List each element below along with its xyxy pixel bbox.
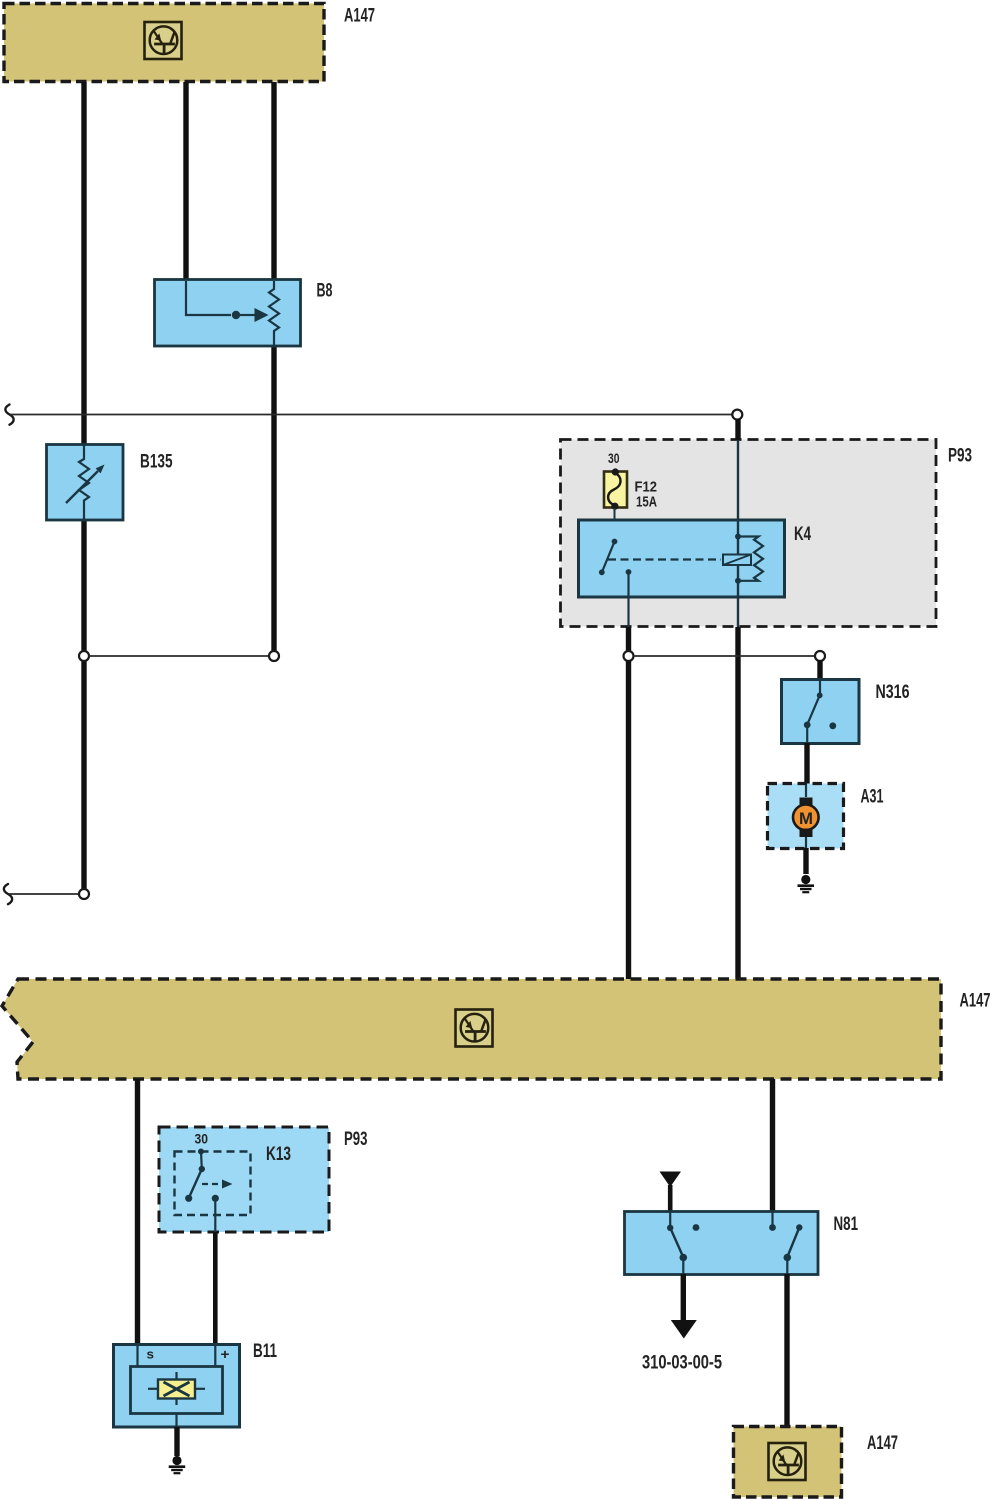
output arrow 310-03-00-5 [671, 1274, 697, 1339]
svg-text:P93: P93 [344, 1129, 368, 1150]
svg-text:K13: K13 [266, 1144, 291, 1165]
resistor B135 [47, 445, 124, 521]
svg-text:A31: A31 [861, 787, 884, 808]
pump A31 [768, 784, 844, 849]
wire [626, 627, 631, 652]
node [624, 651, 634, 661]
wire B11 to ground [174, 1427, 179, 1456]
input arrow to N81 [660, 1172, 682, 1213]
wire [81, 520, 86, 652]
wire [271, 345, 276, 652]
wire bar to N81 (x=772.5) [770, 1079, 775, 1212]
svg-text:30: 30 [195, 1132, 209, 1147]
wire node to K4 (x=738) [735, 419, 740, 440]
svg-text:30: 30 [608, 451, 620, 466]
svg-text:A147: A147 [344, 6, 375, 27]
ground (B11) [169, 1456, 186, 1473]
node junction right [269, 651, 279, 661]
wire fuse to relay switch [614, 508, 616, 541]
wire connector y656 right [634, 655, 816, 657]
svg-text:15A: 15A [636, 495, 657, 511]
wire from A147 to B8 wiper (x=186) [183, 82, 188, 280]
svg-text:N316: N316 [876, 682, 910, 703]
wire from A147 to B135 / junctions (x=84) [81, 82, 86, 444]
relay K4 [579, 520, 785, 597]
node [815, 651, 825, 661]
svg-text:B8: B8 [317, 281, 333, 302]
fuse F12 [604, 468, 627, 509]
wire K13 switch down thin [214, 1198, 216, 1232]
node at x84 lower [79, 889, 89, 899]
svg-text:+: + [221, 1346, 230, 1362]
wire connector y656 [89, 655, 269, 657]
wire K4 to A147 bar (x=738) [735, 627, 740, 979]
control unit A147 (bottom block) [734, 1427, 842, 1498]
svg-text:F12: F12 [635, 480, 658, 496]
svg-text:A147: A147 [960, 991, 991, 1012]
wire to A147 bar (x=628) [626, 660, 631, 979]
svg-text:P93: P93 [948, 446, 972, 467]
wire through K4 thin [737, 440, 739, 554]
relay carrier P93 (gray box) [561, 440, 937, 627]
relay K13 (inner dashed) [175, 1149, 251, 1216]
wire N316 to A31 [804, 743, 809, 784]
svg-text:M: M [799, 809, 813, 828]
wire N81 to A147 bottom [784, 1274, 789, 1427]
svg-text:310-03-00-5: 310-03-00-5 [642, 1353, 722, 1374]
wire A31 to ground [803, 848, 808, 874]
wire K4 switch output thin [627, 572, 629, 627]
interconnect line (upper bus) with break [5, 405, 732, 425]
switch N316 [782, 680, 860, 744]
ground (A31) [798, 875, 815, 892]
wire K13 to B11 [213, 1232, 218, 1345]
sensor B8 [155, 280, 301, 347]
wire [81, 660, 86, 889]
harness A147 (wide bar) [2, 979, 941, 1079]
svg-text:N81: N81 [834, 1214, 859, 1235]
washer pump B11 [114, 1345, 240, 1428]
node at bus end [732, 410, 742, 420]
svg-text:s: s [147, 1347, 155, 1362]
svg-text:A147: A147 [867, 1433, 898, 1454]
svg-text:K4: K4 [794, 524, 811, 545]
wire bar to B11 (x=137.5) [135, 1079, 140, 1345]
wire from A147 through B8 (x=274) [271, 82, 276, 280]
node junction left [79, 651, 89, 661]
control unit A147 (top block) [4, 4, 324, 82]
lower-left break line [4, 884, 79, 904]
wire node to N316 [817, 660, 822, 680]
relay carrier P93 (bottom blue box) [159, 1127, 329, 1232]
switch N81 [625, 1212, 819, 1275]
svg-text:B11: B11 [253, 1341, 277, 1362]
svg-text:B135: B135 [140, 452, 173, 473]
